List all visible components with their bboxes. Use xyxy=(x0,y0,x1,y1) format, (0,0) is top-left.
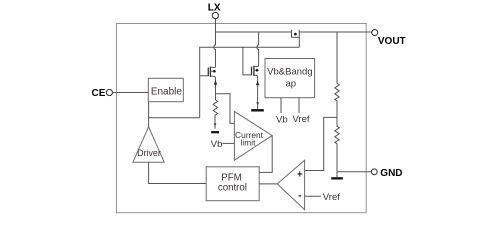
svg-text:Vb&Bandg: Vb&Bandg xyxy=(267,66,312,77)
svg-text:-: - xyxy=(298,191,301,202)
svg-text:ap: ap xyxy=(286,79,297,90)
ground Q2 source xyxy=(251,109,264,111)
svg-text:Vb: Vb xyxy=(276,115,288,126)
pin VOUT terminal xyxy=(372,30,378,36)
svg-text:VOUT: VOUT xyxy=(378,36,406,47)
svg-text:Enable: Enable xyxy=(151,87,183,98)
wire R3 down-arrow mark xyxy=(214,123,217,126)
wire Enable to driver node xyxy=(149,102,200,118)
svg-text:Vref: Vref xyxy=(292,114,309,125)
wire gate of Q1 xyxy=(200,75,209,77)
wire R2 to GND pin xyxy=(337,171,371,173)
wire comparator output to PFM control xyxy=(259,183,277,185)
svg-text:Driver: Driver xyxy=(137,148,161,158)
svg-text:Vb: Vb xyxy=(211,139,223,150)
wire Vb output stub xyxy=(280,98,282,113)
svg-text:CE: CE xyxy=(91,88,105,99)
svg-text:Vref: Vref xyxy=(323,192,340,203)
IC outline box xyxy=(117,24,367,213)
pin CE terminal xyxy=(106,89,112,95)
wire R2 bottom stub xyxy=(336,172,338,177)
wire current sense tap to current limit input xyxy=(216,94,235,124)
op-amp comparator U1 xyxy=(277,160,304,209)
resistor R2 feedback bottom xyxy=(335,117,339,171)
svg-text:control: control xyxy=(218,182,247,193)
op-amp Current limit xyxy=(234,111,272,160)
block PFM control xyxy=(206,167,259,201)
wire rail to drain of Q2 (hops over gate line) xyxy=(254,32,259,67)
wire gate of Q2 xyxy=(243,47,252,75)
transistor Q1 xyxy=(208,67,217,94)
resistor R3 sense (below Q1) xyxy=(213,94,217,129)
block Vb&Bandgap xyxy=(265,59,315,98)
svg-text:limit: limit xyxy=(241,137,257,147)
wire Vb stub to current limit xyxy=(222,142,234,144)
pin LX terminal xyxy=(212,12,218,18)
wire CE to Enable xyxy=(113,92,149,94)
wire Q2 source down-arrow mark xyxy=(256,102,259,105)
wire Vref to comparator - input xyxy=(305,195,321,197)
wire Q3 gate to gate line xyxy=(298,37,300,47)
svg-text:GND: GND xyxy=(380,168,402,179)
resistor R1 feedback top xyxy=(335,32,339,117)
block Enable xyxy=(148,78,183,101)
wire gate line (node G) xyxy=(200,47,300,118)
transistor Q3 bulk dot xyxy=(294,33,297,36)
transistor Q3 contact ears xyxy=(292,30,300,32)
wire PFM control to Driver input xyxy=(149,162,207,183)
svg-text:+: + xyxy=(297,170,303,181)
ground R3 xyxy=(211,131,219,133)
wire feedback tap to comparator + input xyxy=(305,117,337,170)
wire Vref output stub xyxy=(298,98,300,113)
wire LX to drain of Q1 (hops over gate line) xyxy=(214,19,216,67)
ground feedback divider xyxy=(331,177,343,179)
op-amp Driver xyxy=(133,127,164,162)
wire VOUT rail with pass transistor Q3 notch xyxy=(216,32,372,37)
wire current limit output to PFM control xyxy=(259,136,272,173)
transistor Q2 xyxy=(252,66,260,109)
pin GND terminal xyxy=(371,169,377,175)
wire driver output to gate node xyxy=(148,118,150,127)
